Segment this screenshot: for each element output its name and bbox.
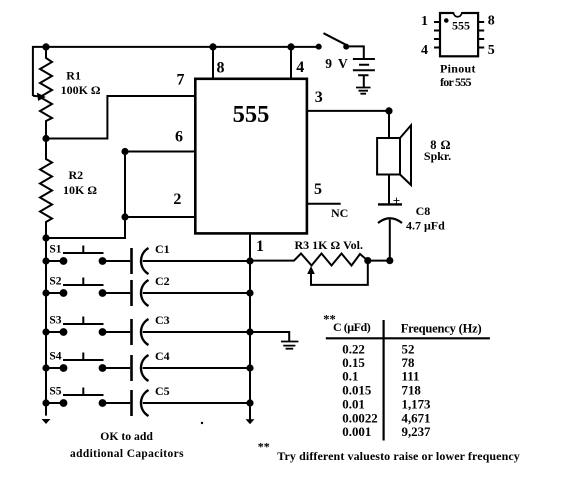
wire [103,402,131,404]
table vertical divider [383,320,385,441]
node left rail row junction [42,364,49,371]
svg-text:8: 8 [217,60,225,77]
svg-text:additional Capacitors: additional Capacitors [70,448,184,460]
wire ground tap [250,332,289,342]
wire [103,367,131,369]
svg-text:555: 555 [233,101,270,128]
svg-text:C1: C1 [155,242,170,256]
wire [46,260,64,262]
node pin4 top rail [287,43,294,50]
wire [143,367,250,369]
wire [143,331,250,333]
switch S2 [60,278,107,297]
svg-text:0.015: 0.015 [342,383,371,397]
capacitor C8 [378,203,402,205]
node pin3 speaker junction [385,107,392,114]
svg-text:C2: C2 [155,274,170,288]
node R2 bottom junction [42,234,49,241]
capacitor C2 [132,280,149,306]
svg-text:0.15: 0.15 [342,356,365,370]
svg-text:718: 718 [402,383,422,397]
ground mid circuit [281,342,298,349]
capacitor C4 [132,355,149,381]
svg-text:R2: R2 [69,168,84,182]
wire [46,292,64,294]
svg-text:4.7 μFd: 4.7 μFd [406,219,445,233]
svg-text:S3: S3 [49,315,61,327]
node R3/C8 junction [386,257,393,264]
wire pin5 stub [307,203,341,205]
ground battery [356,88,371,94]
wire [143,292,250,294]
node pin8 top rail [209,43,216,50]
svg-text:0.22: 0.22 [342,343,365,357]
wire speaker to C8 [388,175,390,205]
resistor R2 [40,139,52,239]
svg-text:R3 1K Ω Vol.: R3 1K Ω Vol. [295,238,364,252]
battery 9V plates [353,59,375,75]
svg-text:52: 52 [402,343,415,357]
svg-text:C5: C5 [155,384,170,398]
node right rail row junction [246,364,253,371]
svg-text:Frequency (Hz): Frequency (Hz) [401,321,482,335]
svg-text:C8: C8 [416,204,431,218]
svg-text:NC: NC [331,206,348,220]
svg-text:4: 4 [421,43,428,58]
wire [46,331,64,333]
svg-text:0.1: 0.1 [342,370,358,384]
switch right contact [343,44,349,50]
wire pin6 [125,151,195,153]
pinout left pins [434,22,440,48]
svg-text:10K Ω: 10K Ω [63,183,97,197]
node right rail row junction [246,399,253,406]
capacitor C3 [132,319,149,345]
pinout pin1 dot [444,18,449,23]
svg-text:4: 4 [296,59,304,76]
svg-text:S5: S5 [49,386,61,398]
svg-text:9,237: 9,237 [402,425,432,439]
svg-text:78: 78 [402,356,415,370]
switch S4 [60,353,107,372]
arrow left rail bottom [42,419,51,424]
svg-text:Try different valuesto raise o: Try different valuesto raise or lower fr… [277,449,520,463]
wire left rail below R2 [45,238,47,416]
pinout IC body [440,13,478,56]
wire pin8 [212,47,214,79]
node right rail row junction [246,328,253,335]
stray dot [201,422,203,424]
node left rail row junction [42,289,49,296]
wire pin7 to R1/R2 junction [46,96,195,139]
node left rail row junction [42,399,49,406]
node top rail / R1 junction [42,43,49,50]
R1 wiper arrow [33,95,38,97]
wire pin2 [125,216,195,218]
svg-text:0.001: 0.001 [342,425,371,439]
svg-text:1: 1 [421,14,428,29]
wire pin3 [307,110,389,112]
node left rail row junction [42,328,49,335]
svg-text:5: 5 [488,43,495,58]
arrow pin1 rail bottom [246,419,255,424]
svg-text:111: 111 [402,370,420,384]
wire [103,292,131,294]
node right rail row junction [246,257,253,264]
svg-text:555: 555 [452,19,470,33]
node left rail row junction [42,257,49,264]
wire [103,260,131,262]
svg-text:1,173: 1,173 [402,398,431,412]
svg-text:7: 7 [177,72,185,89]
svg-text:6: 6 [175,128,183,145]
wire battery to ground [363,75,365,87]
switch S6 lever [324,33,347,45]
pinout right pins [478,22,484,48]
svg-text:C3: C3 [155,313,170,327]
svg-text:0.0022: 0.0022 [342,411,377,425]
svg-text:Spkr.: Spkr. [424,149,451,163]
table horizontal divider [326,337,490,339]
svg-text:4,671: 4,671 [402,411,431,425]
switch left contact [316,44,322,50]
svg-text:S4: S4 [49,351,61,363]
switch S1 [60,246,107,265]
svg-text:S2: S2 [49,276,61,288]
wire switch to battery [346,46,363,59]
R3 wiper arrow [307,266,315,274]
svg-text:2: 2 [173,191,181,208]
svg-text:OK to add: OK to add [100,430,153,443]
svg-text:S1: S1 [49,244,61,256]
speaker LS1 [377,138,400,175]
wire pin1 rail [249,233,251,419]
svg-text:0.01: 0.01 [342,398,365,412]
svg-text:C4: C4 [155,349,170,363]
svg-text:**: ** [258,440,270,454]
capacitor C5 [132,390,149,416]
switch S3 [60,317,107,336]
wire to speaker [388,111,390,138]
svg-text:9 V: 9 V [325,56,348,71]
wire top supply rail [33,47,319,96]
wire [103,331,131,333]
svg-text:1: 1 [256,238,264,255]
wire [143,260,250,262]
wire pin6/pin2 link down to R2 bottom [46,152,125,239]
svg-text:C (μFd): C (μFd) [333,320,371,334]
svg-text:8: 8 [488,14,495,29]
svg-text:for 555: for 555 [440,75,472,89]
node pin6 junction [121,148,128,155]
wire [143,402,250,404]
svg-text:100K Ω: 100K Ω [61,83,101,97]
svg-text:3: 3 [315,89,323,106]
wire C8 to R3 [389,220,391,261]
switch S5 [60,388,107,407]
svg-text:Pinout: Pinout [440,61,476,75]
wire [46,402,64,404]
node pin2 junction [121,213,128,220]
svg-text:R1: R1 [66,69,81,83]
pinout notch [453,12,462,15]
node right rail row junction [246,289,253,296]
resistor R1 (rheostat) [40,47,52,139]
resistor R3 potentiometer [250,254,390,266]
op IC 555 body U1 [195,79,307,234]
wire [46,367,64,369]
wire pin4 [290,47,292,79]
svg-text:5: 5 [314,181,322,198]
node R1/R2 junction [42,135,49,142]
capacitor C1 [132,248,149,274]
node R3 right terminal [364,257,371,264]
